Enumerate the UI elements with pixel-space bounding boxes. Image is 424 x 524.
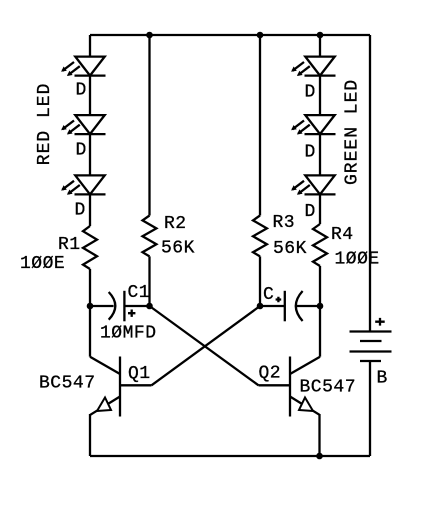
svg-text:R1: R1 — [58, 235, 81, 255]
capacitor C2 plus polarity mark — [276, 297, 282, 303]
wire green LED3 to R4 — [319, 194, 321, 224]
transistor Q2 collector lead — [290, 357, 320, 374]
wire left column top segment — [89, 35, 91, 57]
wire between red LED2 and LED3 — [89, 134, 91, 175]
capacitor C1 curved plate — [109, 292, 116, 320]
wire R3 to node C — [259, 256, 261, 306]
svg-text:GREEN LED: GREEN LED — [343, 79, 363, 185]
svg-text:R3: R3 — [273, 213, 296, 233]
transistor Q2 base lead — [259, 384, 291, 386]
svg-text:56K: 56K — [273, 239, 307, 259]
wire green column top segment — [319, 35, 321, 57]
capacitor C2 curved plate — [296, 291, 303, 321]
capacitor C2 wire from node C — [260, 305, 285, 307]
resistor R1 — [83, 226, 97, 269]
battery B plate 4 short — [360, 360, 381, 362]
wire R4 to node D — [319, 266, 321, 306]
LED D5 (green) — [291, 115, 335, 134]
svg-text:B: B — [377, 369, 388, 389]
transistor Q1 base bar — [119, 357, 121, 417]
capacitor C2 straight plate — [284, 291, 286, 322]
svg-text:BC547: BC547 — [39, 374, 96, 394]
junction dot bottom rail / Q2 emitter — [316, 453, 323, 460]
transistor Q1 collector lead — [90, 357, 120, 374]
svg-text:D: D — [305, 202, 316, 222]
capacitor C1 straight plate — [123, 291, 125, 322]
svg-text:R4: R4 — [331, 225, 354, 245]
svg-text:Q2: Q2 — [259, 364, 282, 384]
junction dot top rail / green LED column — [317, 32, 324, 39]
transistor Q2 emitter lead — [290, 397, 320, 415]
battery B plate 3 long — [350, 350, 392, 352]
wire red LED3 to R1 — [89, 194, 91, 226]
battery B plus mark — [375, 318, 385, 326]
resistor R4 — [313, 224, 327, 266]
junction dot top rail / R3 — [257, 32, 264, 39]
wire cross-coupling node B to Q2 base — [150, 306, 259, 385]
capacitor C1 wire from node A — [90, 305, 114, 307]
svg-text:D: D — [305, 143, 316, 163]
wire node A to Q1 collector — [89, 306, 91, 357]
svg-text:1ØØE: 1ØØE — [335, 250, 380, 270]
svg-text:1ØØE: 1ØØE — [20, 254, 65, 274]
LED D4 (green) — [291, 57, 335, 76]
svg-text:RED LED: RED LED — [35, 83, 55, 166]
wire R2 to node B — [148, 256, 150, 306]
svg-text:56K: 56K — [161, 239, 195, 259]
svg-text:Q1: Q1 — [128, 364, 151, 384]
LED D3 (red) — [61, 175, 105, 194]
transistor Q1 emitter lead — [90, 397, 120, 415]
junction dot top rail / R2 — [146, 32, 153, 39]
LED D1 (red) — [61, 57, 105, 76]
wire node D to Q2 collector — [319, 306, 321, 357]
svg-text:D: D — [305, 83, 316, 103]
wire R3 column top segment — [259, 35, 261, 216]
transistor Q1 base lead — [120, 384, 152, 386]
node A junction dot (Q1 collector) — [87, 303, 94, 310]
svg-text:C: C — [263, 285, 274, 305]
battery B plate 2 short — [360, 340, 382, 342]
svg-text:1ØMFD: 1ØMFD — [100, 324, 157, 344]
resistor R2 — [143, 216, 157, 257]
capacitor C1 plus polarity mark — [128, 310, 135, 317]
LED D2 (red) — [61, 115, 105, 134]
svg-text:R2: R2 — [164, 214, 187, 234]
svg-text:D: D — [76, 141, 87, 161]
LED D6 (green) — [291, 175, 335, 194]
wire R2 column top segment — [148, 35, 150, 216]
svg-text:BC547: BC547 — [300, 378, 357, 398]
wire battery to bottom rail — [369, 361, 371, 456]
battery B plate 1 long — [350, 330, 392, 332]
wire right rail to battery — [369, 35, 371, 332]
resistor R3 — [253, 216, 267, 257]
svg-text:C1: C1 — [128, 283, 151, 303]
transistor Q1 emitter arrowhead — [97, 398, 111, 412]
wire between red LED1 and LED2 — [89, 76, 91, 116]
wire between green LED2 and LED3 — [319, 134, 321, 175]
svg-text:D: D — [76, 81, 87, 101]
wire top rail V+ — [90, 34, 370, 36]
wire Q1 emitter to bottom rail — [89, 414, 91, 456]
transistor Q2 base bar — [289, 357, 291, 417]
node C junction dot (C2 + / R3 / Q1 base) — [257, 303, 264, 310]
transistor Q2 emitter arrowhead — [299, 398, 313, 412]
capacitor C1 wire to node B — [124, 305, 149, 307]
node B junction dot (C1 + / R2 / Q2 base) — [146, 303, 153, 310]
wire bottom rail — [90, 455, 370, 457]
node D junction dot (Q2 collector) — [317, 303, 324, 310]
capacitor C2 wire to node D — [297, 305, 321, 307]
wire R1 to node A — [89, 269, 91, 306]
wire cross-coupling node C to Q1 base — [152, 306, 261, 385]
wire between green LED1 and LED2 — [319, 76, 321, 116]
svg-text:D: D — [75, 201, 86, 221]
wire Q2 emitter to bottom rail — [318, 414, 320, 456]
